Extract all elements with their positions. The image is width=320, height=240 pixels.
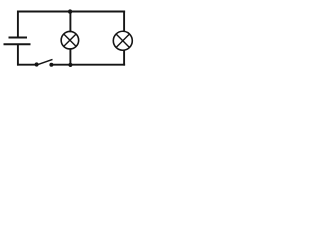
wire: bottom right segment — [70, 64, 125, 66]
wire: lamp L1 top lead — [69, 12, 71, 33]
battery B1 lower plate — [4, 43, 31, 45]
lamp L1 cross — [64, 34, 76, 46]
wire: right edge lower (lamp L2 to bottom wire) — [123, 50, 125, 66]
wire: bottom middle segment — [51, 64, 70, 66]
lamp L2 circle — [113, 31, 132, 50]
wire: right edge upper (top wire to lamp L2) — [123, 11, 125, 32]
switch S1 right terminal — [49, 63, 53, 67]
wire: left edge lower (battery to bottom wire) — [17, 44, 19, 65]
node: top junction dot — [68, 9, 72, 13]
wire: top horizontal — [17, 11, 125, 13]
battery B1 upper plate — [9, 37, 28, 39]
wire: bottom left segment — [17, 64, 37, 66]
lamp L2 cross — [116, 34, 129, 47]
node: bottom junction dot — [68, 63, 72, 67]
switch S1 lever (open) — [37, 59, 53, 65]
wire: left edge upper (top wire to battery) — [17, 11, 19, 38]
switch S1 left terminal — [35, 62, 39, 66]
lamp L1 circle — [61, 31, 79, 49]
wire: lamp L1 bottom lead — [69, 48, 71, 64]
